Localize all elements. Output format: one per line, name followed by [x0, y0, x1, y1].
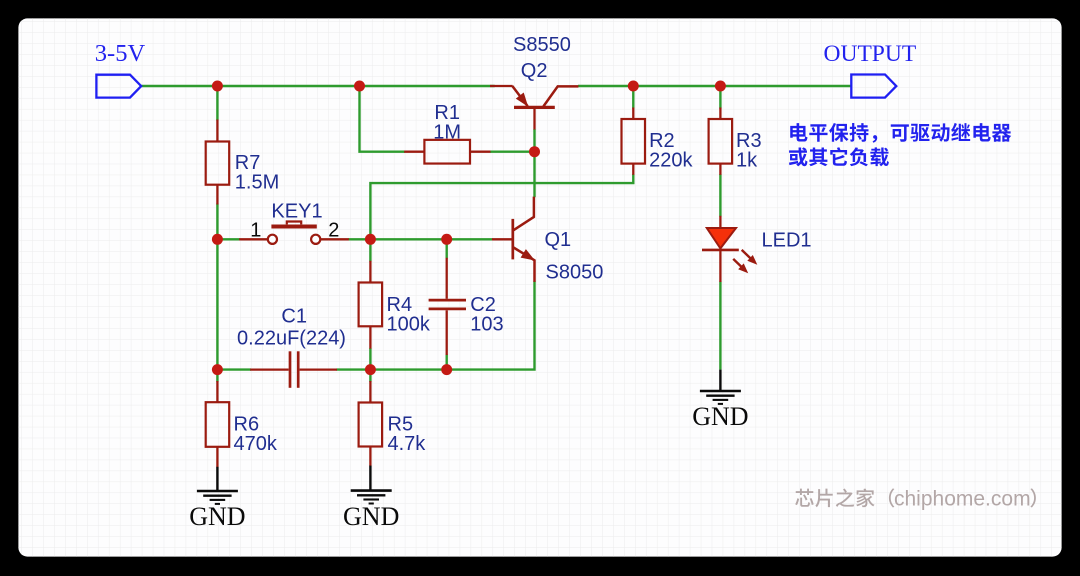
svg-text:S8550: S8550	[513, 34, 571, 56]
svg-text:chiphome.com: chiphome.com	[894, 488, 1031, 511]
svg-text:0.22uF(224): 0.22uF(224)	[237, 328, 346, 350]
node: rail junction at R7	[212, 81, 223, 92]
svg-text:3-5V: 3-5V	[95, 40, 146, 67]
resistor R2 220k	[622, 108, 694, 175]
wire left column KEY1 row to bottom rail	[216, 204, 218, 382]
ground under R5	[343, 466, 399, 531]
wire bottom rail left of C1	[217, 368, 251, 370]
svg-text:1.5M: 1.5M	[235, 172, 279, 194]
wire feedback R2 bottom to KEY1 pin2 node	[370, 174, 633, 239]
net port 3-5V	[95, 40, 146, 98]
svg-text:Q1: Q1	[545, 229, 572, 251]
svg-text:220k: 220k	[649, 150, 693, 172]
wire Q2 base node down to Q1 collector	[533, 129, 535, 197]
svg-text:470k: 470k	[234, 433, 278, 455]
ground under LED1	[692, 370, 748, 432]
net port OUTPUT	[824, 41, 917, 98]
wire C2 top	[446, 239, 448, 258]
node: rail junction at R3	[715, 81, 726, 92]
svg-text:S8050: S8050	[546, 261, 604, 283]
node: bottom rail at R6	[212, 364, 223, 375]
ground under R6	[189, 467, 245, 531]
transistor Q1 S8050 (NPN)	[492, 197, 603, 284]
node: KEY1 pin2 junction	[365, 234, 376, 245]
annotation note line 2	[789, 147, 889, 166]
resistor R6 470k	[206, 381, 278, 467]
node: C2/Q1 base junction	[441, 234, 452, 245]
wire R2 top	[632, 86, 634, 109]
svg-text:GND: GND	[692, 402, 748, 431]
capacitor C1 0.22uF(224)	[237, 305, 346, 387]
pin 1 label	[250, 219, 261, 241]
node: KEY1 pin1 junction	[212, 234, 223, 245]
annotation note line 1	[790, 123, 1011, 143]
pin 2 label	[328, 219, 339, 241]
resistor R5 4.7k	[359, 381, 427, 466]
svg-text:Q2: Q2	[521, 60, 548, 82]
resistor R1 1M	[404, 102, 490, 164]
svg-text:1k: 1k	[736, 150, 758, 172]
wire bottom rail C1 to Q1 emitter	[337, 281, 535, 369]
wire top rail left (3-5V to Q2 emitter)	[141, 85, 495, 87]
svg-text:LED1: LED1	[762, 229, 812, 251]
watermark chiphome	[795, 488, 1036, 511]
node: bottom rail at C2	[441, 364, 452, 375]
node: bottom rail at R5	[365, 364, 376, 375]
wire KEY1 left	[217, 238, 239, 240]
svg-text:1: 1	[250, 219, 261, 241]
wire LED cathode down	[719, 282, 721, 370]
wire C2 bottom	[446, 355, 448, 370]
resistor R7 1.5M	[206, 120, 280, 205]
svg-text:KEY1: KEY1	[271, 200, 322, 222]
svg-text:4.7k: 4.7k	[388, 433, 427, 455]
wire R3 bottom to LED anode	[719, 174, 721, 217]
LED LED1	[702, 216, 812, 282]
transistor Q2 S8550 (PNP)	[490, 34, 578, 130]
wire KEY1 pin2 to Q1 base	[348, 238, 492, 240]
node: Q2 base / R1 junction	[529, 146, 540, 157]
wire R1 right to Q2 base node	[490, 150, 535, 152]
resistor R3 1k	[709, 108, 762, 175]
svg-text:100k: 100k	[387, 313, 431, 335]
resistor R4 100k	[359, 261, 431, 349]
wire R5 top	[369, 370, 371, 382]
wire R4 bottom	[369, 348, 371, 370]
wire R3 top	[719, 86, 721, 109]
svg-text:2: 2	[328, 219, 339, 241]
wire from top rail down to R1 left	[360, 86, 405, 152]
svg-text:GND: GND	[189, 502, 245, 531]
svg-text:103: 103	[470, 313, 503, 335]
svg-text:C1: C1	[281, 305, 307, 327]
capacitor C2 103	[429, 258, 504, 355]
pushbutton KEY1	[239, 200, 349, 244]
wire node A down to R7	[216, 86, 218, 121]
wire R4 top	[369, 239, 371, 261]
svg-text:OUTPUT: OUTPUT	[824, 41, 917, 67]
node: rail junction at R1 drop	[354, 81, 365, 92]
wire top rail right (Q2 collector to OUTPUT)	[578, 85, 852, 87]
node: rail junction at R2	[628, 81, 639, 92]
svg-text:1M: 1M	[433, 122, 461, 144]
svg-text:GND: GND	[343, 502, 399, 531]
